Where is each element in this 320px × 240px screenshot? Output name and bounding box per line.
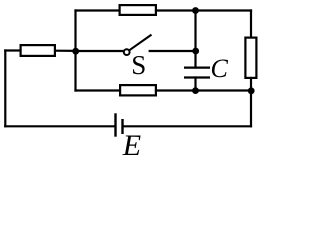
capacitor C top plate (184, 66, 210, 68)
battery E long plate (114, 113, 116, 136)
wire far-left vertical (4, 51, 6, 127)
wire left vertical lower (middle node to bottom branch) (74, 51, 76, 91)
wire switch contact to capacitor node (150, 50, 196, 52)
battery E short plate (121, 119, 123, 134)
wire bottom branch right segment (156, 89, 251, 91)
wire middle vertical (switch node to capacitor top plate) (194, 51, 196, 68)
resistor R2 (left) (21, 45, 55, 56)
resistor R1 (top) (120, 5, 156, 15)
wire bottom branch left segment (76, 89, 121, 91)
wire right vertical middle (resistor to bottom branch node) (250, 78, 252, 91)
capacitor C bottom plate (184, 76, 210, 78)
wire top horizontal right segment (156, 9, 251, 11)
node junction dot capacitor bottom / bottom branch (192, 87, 199, 94)
wire junction to switch pivot (76, 50, 123, 52)
wire left vertical upper (top wire to middle node) (74, 11, 76, 52)
wire left resistor to junction (56, 50, 76, 52)
svg-text:E: E (122, 129, 141, 160)
wire right vertical upper (top wire to right resistor) (250, 11, 252, 38)
wire middle vertical upper (top wire to switch node) (194, 11, 196, 52)
resistor R3 (bottom) (120, 85, 156, 95)
wire right vertical lower (node to bottom wire) (250, 91, 252, 127)
switch S blade (129, 35, 151, 51)
wire capacitor bottom plate to bottom branch (194, 78, 196, 91)
wire top horizontal left segment (76, 9, 120, 11)
node junction dot left (switch line / left vertical) (72, 48, 79, 55)
switch S pivot circle (124, 49, 130, 55)
node junction dot top wire (192, 7, 199, 14)
resistor R4 (right) (245, 38, 256, 78)
wire bottom horizontal left (to battery) (5, 125, 114, 127)
wire bottom horizontal right (battery to right corner) (124, 125, 251, 127)
node junction dot bottom branch / right vertical (248, 87, 255, 94)
svg-text:C: C (211, 54, 229, 83)
wire middle-left horizontal stub (5, 49, 20, 51)
node junction dot switch-capacitor (192, 48, 199, 55)
svg-text:S: S (131, 50, 146, 80)
